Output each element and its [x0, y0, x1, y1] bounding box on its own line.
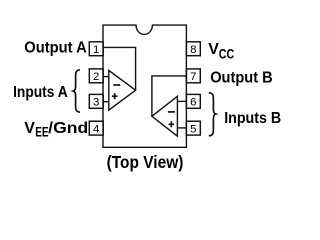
svg-text:2: 2 [93, 71, 99, 83]
op-amp B triangle [152, 96, 178, 136]
pin 7 box [186, 69, 200, 83]
op-amp B plus sign [169, 121, 175, 127]
svg-text:8: 8 [190, 44, 196, 56]
brace for Inputs A [73, 70, 80, 112]
wire pin2 to op-amp A inverting input [103, 76, 109, 78]
pin 4 box [89, 121, 103, 135]
wire pin3 to op-amp A non-inverting input [103, 101, 109, 103]
op-amp A plus sign [112, 93, 118, 99]
wire pin5 to op-amp B non-inverting input [177, 127, 186, 129]
op-amp A triangle [109, 70, 136, 110]
svg-text:6: 6 [190, 97, 196, 109]
pin 3 box [89, 94, 103, 108]
svg-text:/Gnd: /Gnd [48, 120, 88, 137]
svg-text:EE: EE [35, 123, 48, 139]
svg-text:V: V [24, 120, 35, 137]
pin 5 box [186, 121, 200, 135]
svg-text:4: 4 [93, 123, 99, 135]
wire pin6 to op-amp B inverting input [177, 100, 186, 102]
svg-text:7: 7 [190, 71, 196, 83]
svg-text:3: 3 [93, 97, 99, 109]
pin 6 box [186, 94, 200, 108]
svg-text:Output A: Output A [24, 39, 87, 56]
svg-text:(Top View): (Top View) [107, 152, 184, 172]
svg-text:5: 5 [190, 123, 196, 135]
svg-text:CC: CC [219, 46, 234, 62]
svg-text:Output B: Output B [210, 70, 273, 87]
op-amp A minus sign [113, 84, 120, 86]
wire pin1 to op-amp A output [103, 47, 136, 90]
pin 2 box [89, 69, 103, 83]
svg-text:Inputs B: Inputs B [224, 110, 281, 127]
wire pin7 to op-amp B output [152, 76, 187, 116]
svg-text:Inputs A: Inputs A [13, 84, 68, 101]
pin 8 box [186, 42, 200, 56]
svg-text:V: V [208, 41, 219, 58]
svg-text:1: 1 [93, 44, 99, 56]
brace for Inputs B [209, 93, 216, 136]
IC body U1 (8-pin DIP outline with top notch) [103, 25, 186, 147]
op-amp B minus sign [168, 111, 175, 113]
pin 1 box [89, 42, 103, 56]
